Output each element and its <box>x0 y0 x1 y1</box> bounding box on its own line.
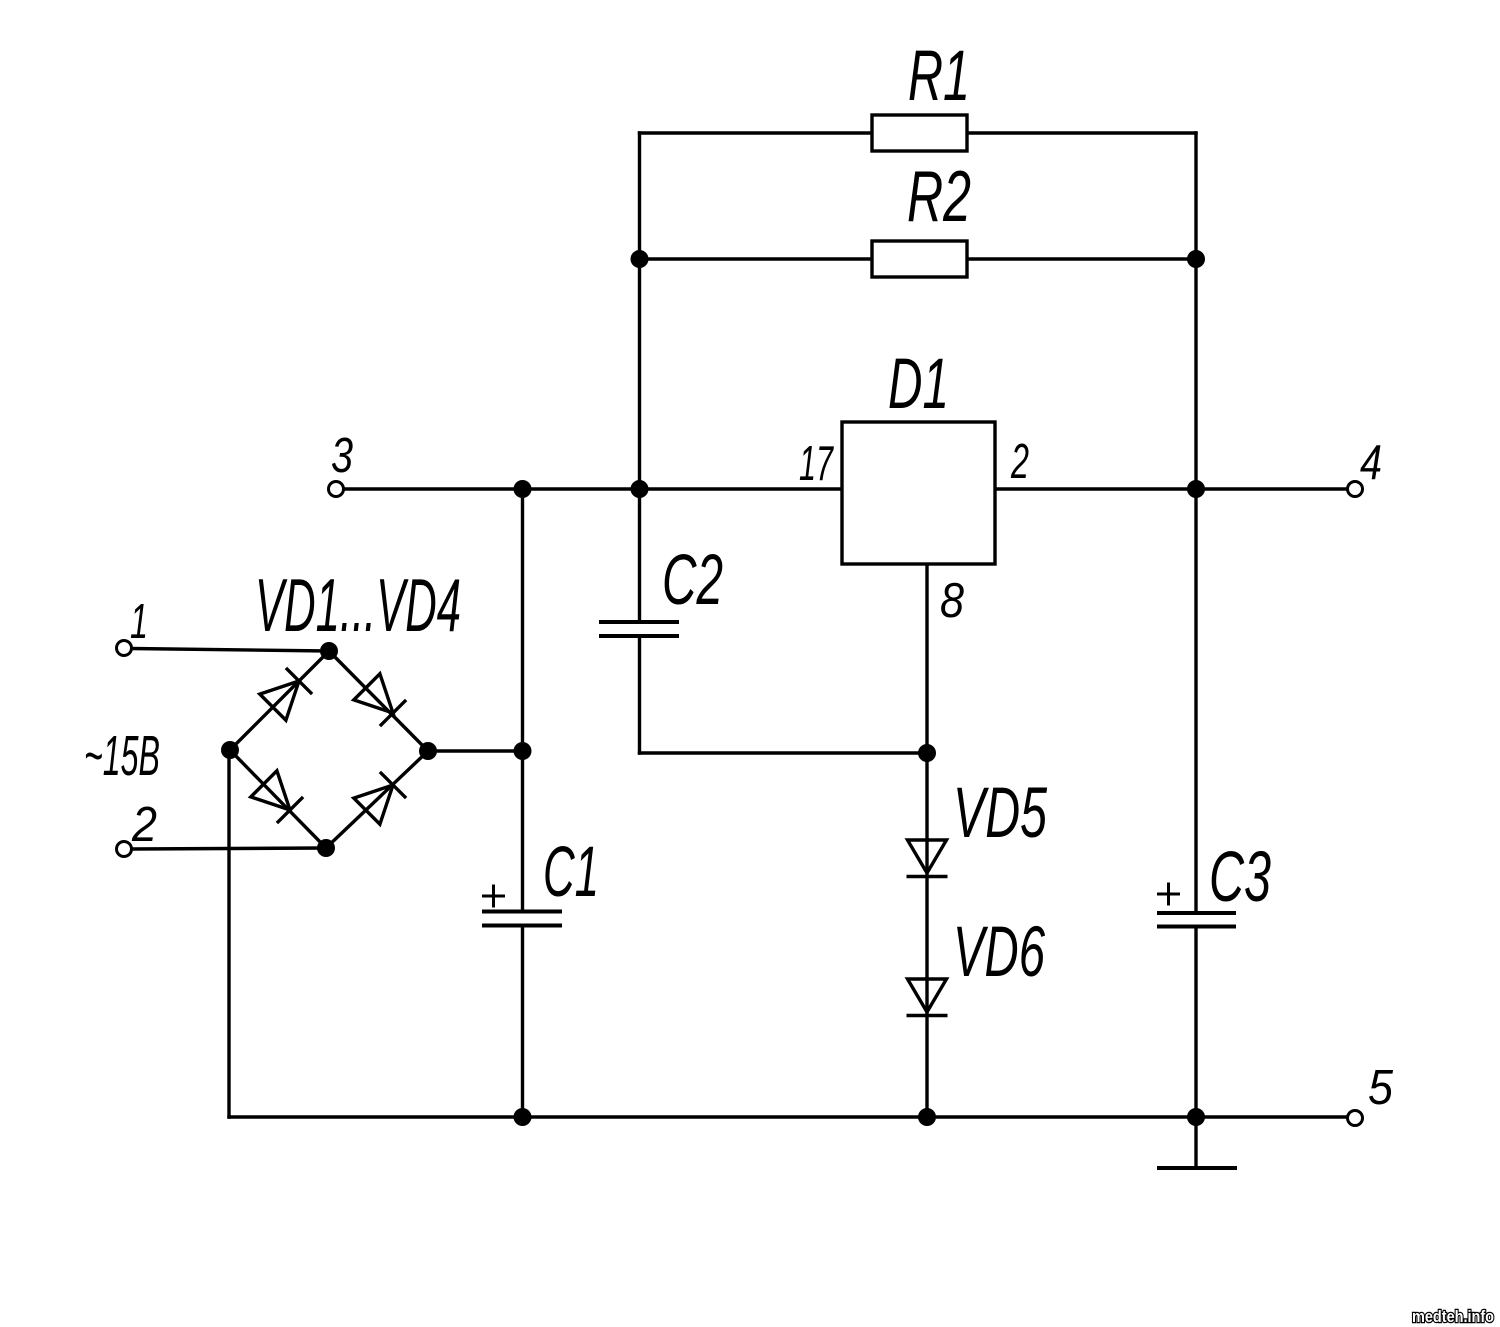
svg-text:2: 2 <box>1010 435 1029 489</box>
svg-text:VD6: VD6 <box>953 913 1045 992</box>
svg-text:medteh.info: medteh.info <box>1412 1307 1494 1326</box>
svg-text:D1: D1 <box>888 345 949 424</box>
svg-text:R2: R2 <box>907 157 971 237</box>
svg-text:VD5: VD5 <box>953 774 1047 853</box>
svg-text:2: 2 <box>131 798 157 852</box>
svg-text:C2: C2 <box>662 541 723 620</box>
svg-text:C3: C3 <box>1209 838 1271 917</box>
svg-text:VD1...VD4: VD1...VD4 <box>255 563 461 647</box>
svg-text:1: 1 <box>130 595 148 649</box>
svg-text:5: 5 <box>1368 1061 1394 1115</box>
svg-text:R1: R1 <box>908 37 970 116</box>
svg-text:17: 17 <box>799 437 834 491</box>
svg-text:4: 4 <box>1360 436 1382 490</box>
svg-text:C1: C1 <box>543 833 599 912</box>
svg-text:8: 8 <box>940 574 964 628</box>
svg-text:~15В: ~15В <box>84 724 160 788</box>
svg-text:3: 3 <box>331 429 353 483</box>
